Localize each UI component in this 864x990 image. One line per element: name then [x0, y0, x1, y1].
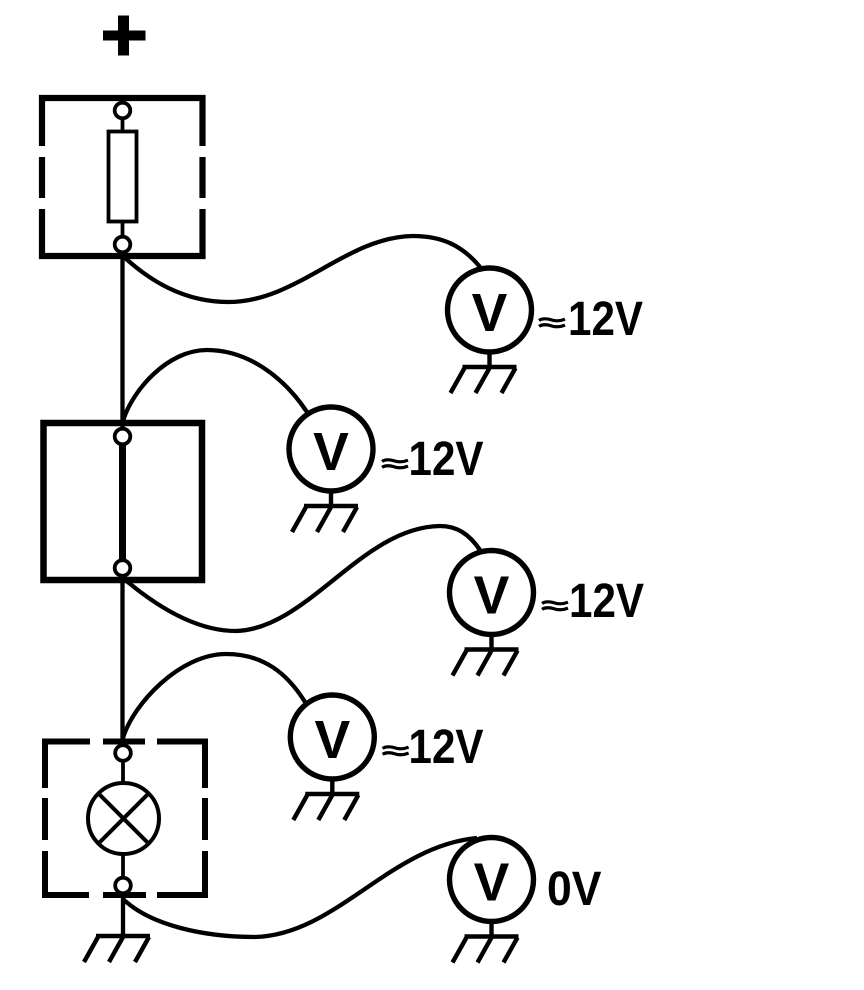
label ~12V (V1) [539, 319, 565, 327]
ground (circuit) [84, 936, 150, 962]
voltmeter V1 [448, 268, 532, 352]
label ~12V (V3) [542, 602, 568, 610]
voltmeter V2 [289, 407, 373, 491]
terminal (fuse top) [115, 103, 131, 119]
wire [121, 222, 125, 237]
wire (V5 to ground) [489, 922, 493, 937]
wire (lamp to ground) [121, 893, 125, 936]
svg-text:12V: 12V [409, 721, 484, 774]
ground (V4) [293, 794, 359, 820]
dashed box (lamp enclosure) [42, 739, 208, 899]
battery plus terminal [103, 16, 146, 56]
switch box [44, 423, 203, 580]
label ~12V (V4) [383, 747, 409, 755]
measurement wire 1 [123, 236, 480, 302]
wire (V2 to ground) [329, 491, 333, 506]
terminal (lamp top) [115, 745, 131, 761]
wire (V1 to ground) [487, 352, 491, 367]
voltmeter V5 [450, 838, 534, 922]
wire [121, 761, 125, 784]
svg-text:12V: 12V [409, 433, 484, 486]
voltmeter V3 [450, 551, 534, 635]
svg-text:V: V [472, 284, 508, 343]
wire (V4 to ground) [330, 779, 334, 794]
svg-text:12V: 12V [569, 575, 644, 628]
measurement wire 4 [123, 654, 305, 738]
svg-text:V: V [474, 854, 510, 913]
ground (V5) [453, 937, 519, 963]
svg-text:V: V [313, 423, 349, 482]
measurement wire 3 [123, 526, 480, 631]
dashed box (fuse enclosure) [39, 95, 206, 259]
wire (V3 to ground) [489, 635, 493, 650]
svg-text:V: V [474, 567, 510, 626]
fuse F1 [109, 132, 137, 222]
ground (V2) [292, 506, 358, 532]
voltmeter V4 [290, 695, 374, 779]
switch contact bar [119, 445, 126, 561]
measurement wire 2 [123, 350, 307, 421]
svg-text:0V: 0V [547, 863, 602, 916]
measurement wire 5 [123, 838, 477, 937]
wire [121, 119, 125, 133]
wire (fuse to switch) [120, 253, 124, 429]
terminal (lamp bottom) [115, 878, 131, 894]
wire [121, 854, 125, 878]
svg-text:V: V [314, 711, 350, 770]
wire (switch to lamp) [120, 576, 124, 745]
terminal (switch top) [115, 429, 131, 445]
terminal (fuse bottom) [115, 237, 131, 253]
ground (V1) [451, 367, 517, 393]
terminal (switch bottom) [115, 560, 131, 576]
svg-text:12V: 12V [568, 293, 643, 346]
lamp E1 [88, 783, 159, 854]
label ~12V (V2) [382, 460, 408, 468]
ground (V3) [453, 650, 519, 676]
